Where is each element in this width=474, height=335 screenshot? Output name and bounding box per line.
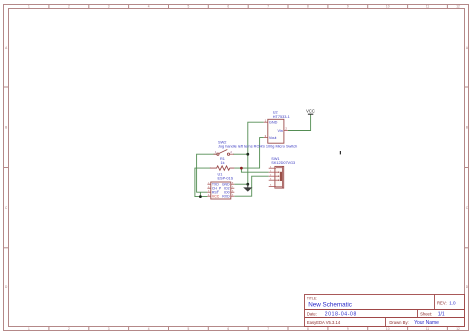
svg-text:7: 7 (267, 327, 269, 331)
svg-text:VCC: VCC (212, 195, 220, 199)
svg-text:EasyEDA V5.3.14: EasyEDA V5.3.14 (307, 320, 341, 325)
svg-text:B: B (466, 126, 468, 130)
U1 pin names (212, 183, 230, 199)
resistor R1 (210, 166, 235, 170)
svg-text:12: 12 (456, 327, 460, 331)
wire ground rail to U1 GND (234, 183, 248, 185)
U2 pin numbers (265, 118, 288, 137)
wire R1 left to U1 VCC (195, 168, 211, 197)
svg-text:1/1: 1/1 (438, 312, 445, 318)
svg-text:2018-04-08: 2018-04-08 (325, 312, 357, 318)
svg-text:5: 5 (188, 327, 190, 331)
svg-text:1: 1 (28, 327, 30, 331)
svg-text:11: 11 (426, 327, 430, 331)
svg-text:6: 6 (227, 5, 229, 9)
svg-text:5: 5 (188, 5, 190, 9)
power flag VCC (306, 108, 315, 114)
svg-text:2: 2 (68, 5, 70, 9)
svg-text:SW2: SW2 (218, 139, 226, 144)
ground (243, 184, 252, 191)
svg-text:9: 9 (347, 5, 349, 9)
svg-text:4: 4 (148, 327, 150, 331)
svg-text:3: 3 (108, 327, 110, 331)
svg-text:REV:: REV: (437, 300, 447, 305)
svg-text:1.0: 1.0 (449, 301, 456, 306)
wire U2 GND down to ground rail (248, 122, 264, 184)
wire RST-VCC link (199, 192, 201, 196)
svg-text:10: 10 (386, 5, 390, 9)
svg-text:B: B (5, 126, 7, 130)
svg-text:GND: GND (269, 121, 278, 125)
svg-text:Jog handle left terns ROHS 100: Jog handle left terns ROHS 100g Micro Sw… (218, 145, 297, 149)
svg-text:8: 8 (307, 327, 309, 331)
junction SW2/GND rail (246, 153, 249, 156)
wire SW2 pin1 to U1 RST (197, 154, 218, 192)
U1 pin numbers (208, 183, 234, 197)
junction on VCC wire (199, 195, 202, 198)
svg-text:4: 4 (148, 5, 150, 9)
svg-text:7: 7 (267, 5, 269, 9)
junction R1/Vout/SW1 node (240, 167, 243, 170)
svg-text:9: 9 (347, 327, 349, 331)
switch SW2 (214, 150, 234, 156)
U2 pin names (269, 121, 283, 140)
switch SW1 SK12D07VG3 (269, 166, 284, 188)
svg-text:RXD: RXD (222, 195, 230, 199)
svg-text:3: 3 (108, 5, 110, 9)
svg-text:Vin: Vin (277, 129, 282, 133)
svg-text:TITLE:: TITLE: (307, 296, 317, 300)
svg-text:Drawn By:: Drawn By: (389, 320, 408, 325)
svg-text:SK12D07VG3: SK12D07VG3 (271, 161, 295, 165)
svg-text:New Schematic: New Schematic (308, 302, 352, 309)
junction ground node (246, 183, 249, 186)
svg-text:10: 10 (386, 327, 390, 331)
svg-text:Vout: Vout (269, 136, 278, 140)
svg-text:8: 8 (307, 5, 309, 9)
svg-text:1: 1 (28, 5, 30, 9)
svg-text:2: 2 (68, 327, 70, 331)
svg-text:11: 11 (426, 5, 430, 9)
regulator U2 HT7533-1 (264, 119, 288, 143)
svg-text:HT7533-1: HT7533-1 (273, 115, 290, 119)
svg-text:U2: U2 (273, 111, 278, 115)
svg-text:12: 12 (456, 5, 460, 9)
title block (decorative) (305, 295, 465, 327)
text cursor artifact (340, 151, 341, 154)
svg-text:1k: 1k (221, 161, 225, 165)
wire SW2 pin2 to ground rail (233, 153, 248, 155)
svg-text:Date:: Date: (307, 311, 317, 316)
wire R1 right to U2 Vout (234, 138, 263, 169)
svg-text:ESP-01S: ESP-01S (218, 176, 234, 180)
svg-text:Sheet:: Sheet: (420, 311, 432, 316)
wire U2 Vin to VCC flag (288, 114, 311, 130)
wire junction to SW1 pin row 172 (241, 168, 268, 172)
wire U1 RXD to SW1 pin row 176 (234, 176, 268, 196)
svg-text:VCC: VCC (306, 108, 315, 113)
svg-text:Your Name: Your Name (414, 320, 439, 326)
svg-text:6: 6 (227, 327, 229, 331)
IC U1 ESP-01S (207, 182, 234, 199)
SW1 pin numbers (270, 166, 272, 186)
